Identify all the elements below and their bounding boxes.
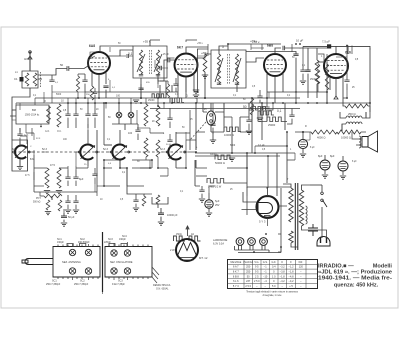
wire top right corner bbox=[303, 46, 370, 54]
wire gang1 terminals bbox=[29, 151, 34, 153]
wire mid h2 bbox=[196, 168, 247, 176]
wire 5Y3 down bbox=[267, 218, 269, 226]
panel mech line bbox=[102, 232, 104, 292]
resistor R20 bbox=[156, 195, 160, 204]
meander under V2 bbox=[152, 94, 166, 98]
wire panel SC4 stem bbox=[73, 242, 128, 247]
extra dots 3 bbox=[119, 159, 121, 161]
volume pot bbox=[44, 194, 62, 200]
wire under V2 links bbox=[160, 81, 168, 84]
wire right of IFT1 bbox=[167, 57, 175, 59]
svg-text:0,4: 0,4 bbox=[272, 266, 276, 269]
wire x197 long v bbox=[197, 49, 199, 92]
filter elco C30 bbox=[298, 139, 307, 148]
V3 plate load wires bbox=[246, 52, 296, 55]
svg-text:190pF: 190pF bbox=[119, 238, 126, 241]
dots pass7 bbox=[267, 155, 269, 157]
ground C31 bbox=[322, 175, 328, 178]
capacitor 7.5pF bbox=[327, 44, 331, 48]
wire y122 h bbox=[258, 121, 267, 123]
wire x158 y84 bbox=[157, 84, 159, 88]
svg-text:PLACCA: PLACCA bbox=[243, 261, 253, 264]
svg-text:8µF: 8µF bbox=[318, 154, 323, 158]
V4 cathode resistor bbox=[345, 104, 368, 108]
svg-text:−3,2: −3,2 bbox=[280, 266, 286, 269]
svg-text:5 Y 3: 5 Y 3 bbox=[259, 220, 266, 224]
wire more mid right bbox=[287, 153, 295, 160]
wire under gang2 bbox=[76, 152, 80, 166]
IF transformer IFT2 box bbox=[211, 50, 246, 88]
svg-text:6 K 7: 6 K 7 bbox=[233, 271, 239, 274]
V4 cathode arrow bbox=[334, 96, 338, 99]
wire V3 under cluster bbox=[257, 90, 262, 103]
wire bottom bus bbox=[195, 160, 197, 168]
cap 100uF bbox=[135, 124, 140, 140]
svg-text:50000 Ω: 50000 Ω bbox=[215, 161, 225, 165]
wire IFT2 to V3 grid bbox=[237, 58, 264, 92]
svg-text:250×7,350pF: 250×7,350pF bbox=[74, 283, 89, 286]
svg-text:−4,2: −4,2 bbox=[289, 280, 295, 283]
svg-text:10000 pF: 10000 pF bbox=[167, 214, 178, 217]
meander resistor 2 bbox=[258, 111, 274, 115]
wire bus stubs bbox=[35, 98, 95, 105]
resistor mid bbox=[57, 104, 61, 127]
shaft flat bbox=[22, 260, 28, 263]
wire v a bbox=[96, 130, 98, 155]
V2 grid cap capacitor bbox=[168, 58, 170, 63]
wire y168 x120 bbox=[119, 160, 121, 168]
wire x110 y50 bbox=[109, 47, 111, 52]
wire det coupling bbox=[120, 160, 152, 186]
wire x262 stub bbox=[261, 44, 263, 50]
filter elco C31 8uF bbox=[320, 160, 330, 170]
wire x240 to oval bbox=[223, 126, 225, 132]
svg-text:«JDL 619 ». —; Produzione: «JDL 619 ». —; Produzione bbox=[318, 270, 392, 276]
wire x186 picks bbox=[185, 132, 187, 140]
wire x44 v bbox=[43, 92, 45, 98]
antenna coil T1 box bbox=[22, 71, 38, 88]
wire left steps bbox=[33, 133, 35, 140]
wire x52 y92 bbox=[51, 85, 53, 98]
wire y140 bbox=[186, 139, 196, 141]
wire x150 v bbox=[149, 128, 151, 168]
wire x120 y56 stub bbox=[120, 55, 126, 57]
meander 10000b bbox=[224, 127, 241, 132]
cap col c bbox=[85, 103, 90, 128]
wire v c bbox=[185, 77, 187, 93]
power transformer core bbox=[295, 183, 298, 250]
cap col d bbox=[92, 103, 97, 128]
trimmer t1 bbox=[116, 112, 122, 118]
grid cap capacitor C2 50pF bbox=[67, 66, 69, 71]
IF transformer IFT1 box bbox=[133, 46, 167, 78]
meander speaker field a bbox=[174, 236, 186, 241]
cap x176 mid bbox=[167, 134, 172, 148]
ground 50uF bbox=[61, 223, 67, 226]
svg-text:52.3: 52.3 bbox=[160, 148, 165, 151]
wire avc left edge bbox=[33, 150, 35, 155]
junction dots 4 bbox=[295, 102, 297, 104]
bus top bbox=[35, 97, 205, 99]
wire left col y120 ties bbox=[12, 110, 16, 120]
wire x292 v bbox=[291, 44, 293, 52]
small cap mid b bbox=[246, 115, 251, 130]
wire mid h3 bbox=[227, 153, 247, 183]
svg-text:8µF: 8µF bbox=[79, 178, 84, 181]
panel trimmer 6 bbox=[85, 268, 91, 274]
wire x164 y103-108 bbox=[164, 98, 172, 109]
junction dots 2 bbox=[227, 43, 229, 45]
svg-text:Ω: Ω bbox=[186, 95, 188, 98]
wire x232 upper bbox=[231, 117, 233, 132]
capacitor C21 bbox=[293, 54, 298, 56]
wire x345 bbox=[343, 54, 347, 98]
resistor R12 bbox=[45, 168, 49, 188]
wire V4 grid res bbox=[316, 64, 319, 84]
wire x106 y103-108 bbox=[105, 103, 107, 109]
band box BM bbox=[16, 105, 49, 124]
extra grounds top bbox=[193, 75, 208, 93]
band switch right section bbox=[105, 247, 152, 278]
wire IFT1 bottom to bus bbox=[141, 78, 158, 98]
wire det2 bbox=[307, 48, 309, 98]
wire det bus bbox=[267, 91, 317, 93]
gnd x205 y78 bbox=[193, 95, 199, 98]
wire gang4 to osc bbox=[188, 151, 196, 153]
power transformer secondary 2 bbox=[289, 231, 293, 243]
wire V1 under cluster bbox=[82, 74, 87, 92]
wire y146 right bbox=[255, 145, 287, 147]
tube V5 5Y3 bbox=[257, 196, 279, 218]
IFT2 core dashes bbox=[228, 54, 230, 84]
dash link osc bbox=[190, 122, 206, 140]
svg-text:5 Y 3: 5 Y 3 bbox=[233, 285, 239, 288]
loudspeaker bbox=[176, 239, 198, 261]
IFT1 core dashes bbox=[150, 50, 152, 74]
wire x95 to box bbox=[94, 184, 96, 192]
V1 cathode resistor bbox=[90, 86, 94, 100]
extra cap top V1 bbox=[93, 88, 97, 98]
wire y57 link bbox=[336, 56, 347, 58]
wire tops y40 bbox=[150, 40, 197, 42]
wire y168 segs bbox=[104, 167, 186, 169]
svg-text:250×7,350pF: 250×7,350pF bbox=[46, 283, 61, 286]
wire osc oval bbox=[210, 103, 212, 132]
wire x90 y60 bbox=[90, 52, 95, 56]
wire 5Y3 plate left bbox=[246, 196, 248, 215]
panel trimmer 5 bbox=[69, 268, 75, 274]
wire antenna top tick bbox=[38, 78, 42, 80]
wire right col y60-90 bbox=[303, 48, 327, 92]
demoltiplica hatch bbox=[152, 267, 159, 283]
svg-text:di segnale, in rete: di segnale, in rete bbox=[263, 294, 283, 297]
ground R14 bbox=[45, 212, 51, 215]
svg-text:8 µF: 8 µF bbox=[352, 161, 357, 163]
wire V2 plate up bbox=[186, 47, 208, 54]
wire right x370 ext bbox=[366, 112, 370, 118]
resistor under V2 c bbox=[166, 84, 169, 98]
wire det3 bbox=[316, 48, 318, 98]
wire IFT1 sec to V2 grid bbox=[158, 60, 175, 81]
svg-text:G.S.: G.S. bbox=[263, 261, 268, 264]
wire x213 upper bbox=[212, 103, 214, 117]
band switch left section bbox=[53, 247, 100, 278]
wire gang3 bbox=[119, 130, 121, 168]
wire V3 cath bus bbox=[267, 90, 283, 103]
wire IFT1 inner trimcaps bbox=[139, 75, 160, 76]
cap x141 y88 bbox=[138, 84, 143, 98]
dot bm bbox=[40, 126, 42, 128]
svg-text:1940-1941. — Media fre-: 1940-1941. — Media fre- bbox=[318, 276, 392, 282]
gnd x141 y100 bbox=[133, 100, 139, 103]
tuning gang section CV4 bbox=[166, 145, 185, 160]
wire V2 plate top y49 bbox=[197, 48, 208, 50]
wire y48 left of V3 bbox=[251, 47, 264, 49]
switch shaft bbox=[25, 259, 53, 265]
wire pot wiper bbox=[40, 192, 52, 200]
svg-text:5000: 5000 bbox=[230, 145, 236, 147]
dots pass6 bbox=[163, 102, 165, 104]
wire PT top bbox=[283, 184, 310, 190]
svg-text:8 µF: 8 µF bbox=[310, 147, 315, 149]
svg-text:50: 50 bbox=[243, 105, 247, 109]
wire V2 under cluster a bbox=[173, 78, 178, 92]
svg-text:POT.: POT. bbox=[36, 198, 41, 200]
wire ant top ticks bbox=[28, 56, 32, 59]
wire y117 h bbox=[224, 116, 249, 118]
power transformer tap loops bbox=[306, 206, 308, 224]
svg-text:6,3V 0,3A: 6,3V 0,3A bbox=[213, 243, 224, 246]
wire OT bbox=[340, 112, 366, 131]
wire tone top bbox=[127, 186, 144, 196]
voltage table text bbox=[230, 261, 303, 288]
svg-text:50 µF: 50 µF bbox=[68, 216, 75, 219]
svg-text:G.O.: G.O. bbox=[45, 131, 50, 133]
wire x348 plate bbox=[302, 46, 304, 48]
gnd extra mid bbox=[210, 140, 235, 161]
svg-text:SEZ. ANTENNA: SEZ. ANTENNA bbox=[62, 260, 81, 264]
svg-text:237: 237 bbox=[246, 280, 251, 283]
wire 64 top bbox=[63, 209, 65, 213]
svg-text:+ 5: + 5 bbox=[289, 285, 293, 288]
coil L6 bbox=[144, 138, 148, 157]
wire x251 v bbox=[250, 44, 252, 50]
svg-text:6A8: 6A8 bbox=[89, 44, 95, 48]
wire x190 col bbox=[189, 110, 191, 150]
coil L7 bbox=[156, 140, 160, 157]
svg-text:10000 Ω: 10000 Ω bbox=[341, 136, 351, 140]
resistor x327 bbox=[325, 64, 328, 90]
wire x260 gnd bbox=[259, 110, 261, 118]
svg-text:52.3: 52.3 bbox=[103, 148, 108, 151]
svg-text:0,1: 0,1 bbox=[277, 109, 282, 113]
svg-text:250 Ω: 250 Ω bbox=[348, 112, 356, 116]
wire IFT2 top bbox=[219, 44, 228, 54]
top wire y44 continuous bbox=[228, 43, 281, 45]
wire 5Y3 right bbox=[242, 192, 288, 210]
svg-text:G.N. 600AL: G.N. 600AL bbox=[156, 288, 169, 291]
wire v long2 bbox=[246, 153, 248, 188]
gnd bm bbox=[17, 167, 23, 170]
wire under V3 links bbox=[252, 115, 267, 122]
filter resistor 10000 bbox=[337, 130, 361, 134]
svg-text:5µF: 5µF bbox=[215, 200, 220, 203]
cap 01b bbox=[73, 195, 78, 209]
ground caps bbox=[65, 210, 79, 213]
mains plug bbox=[317, 237, 330, 246]
wire mains bbox=[310, 184, 322, 186]
wire mid col2 bbox=[285, 103, 303, 132]
wire speaker leads bbox=[356, 139, 362, 145]
wire gang tops bbox=[20, 136, 27, 144]
wire V4 grid res ends bbox=[317, 62, 319, 92]
wire antenna to ground bus bbox=[12, 88, 30, 140]
cap col a bbox=[65, 103, 70, 128]
svg-text:52.3: 52.3 bbox=[12, 149, 17, 151]
gang1 box bbox=[12, 140, 28, 171]
svg-text:−10: −10 bbox=[263, 275, 268, 278]
power transformer secondary winding bbox=[289, 188, 293, 222]
wire mid verticals2 bbox=[249, 103, 287, 122]
wire elco coupling det bbox=[209, 186, 215, 193]
wire V1 envelope to bus bbox=[98, 90, 100, 98]
speaker voice coil bbox=[359, 136, 361, 148]
panel trimmer 3 bbox=[111, 250, 117, 256]
wire x269 stub bbox=[268, 92, 270, 98]
cap x96 mid bbox=[92, 168, 97, 184]
svg-text:1500-1514 kc: 1500-1514 kc bbox=[25, 114, 40, 117]
wire primary to plug bbox=[302, 226, 327, 238]
svg-text:9 5: 9 5 bbox=[255, 271, 259, 274]
wire x268 v bbox=[267, 156, 269, 188]
dots pass4 bbox=[346, 97, 348, 99]
vertical pair x205-210 top bbox=[207, 44, 209, 50]
IFT2 primary coil bbox=[217, 54, 220, 84]
svg-text:1Ω: 1Ω bbox=[191, 234, 194, 236]
svg-text:+250 v.: +250 v. bbox=[201, 53, 209, 55]
svg-text:30000: 30000 bbox=[210, 154, 217, 156]
svg-text:Modelli: Modelli bbox=[373, 263, 393, 269]
wire top bus drops bbox=[119, 98, 158, 106]
tuning gang section CV2 bbox=[78, 145, 97, 160]
wire gang2 terminals bbox=[76, 151, 100, 153]
meander 1M bbox=[207, 179, 227, 184]
capacitor C1 bbox=[20, 77, 24, 82]
svg-text:−4,2: −4,2 bbox=[280, 280, 286, 283]
svg-text:+250 v.: +250 v. bbox=[250, 41, 258, 43]
svg-text:120: 120 bbox=[299, 266, 304, 269]
wire right bus down bbox=[369, 48, 371, 112]
elco 5uF bbox=[205, 200, 213, 208]
gang dashed line bbox=[14, 151, 188, 153]
ground elco5 bbox=[206, 213, 212, 216]
wire lamps right up bbox=[269, 247, 281, 253]
wire tone h bbox=[144, 193, 152, 195]
wire x327 ends bbox=[326, 54, 328, 103]
speaker cone bbox=[368, 131, 378, 152]
svg-text:9 5: 9 5 bbox=[255, 266, 259, 269]
cap 01a bbox=[65, 195, 70, 209]
wire x104 lower bbox=[104, 160, 120, 186]
svg-text:C1: C1 bbox=[14, 77, 18, 81]
wire switch bbox=[321, 185, 323, 238]
cap right col bbox=[300, 66, 305, 80]
wire y160 left bbox=[104, 159, 152, 161]
svg-text:VALVOLE: VALVOLE bbox=[230, 261, 241, 264]
wire y133 steps bbox=[150, 132, 190, 134]
avc box bbox=[34, 155, 97, 192]
wire y145 left bbox=[104, 144, 112, 146]
resistor R14 bbox=[46, 200, 50, 210]
resistor tone bbox=[142, 196, 146, 206]
antenna coil secondary bbox=[33, 73, 37, 86]
cap col e bbox=[167, 108, 172, 128]
osc coil L4 bbox=[144, 104, 148, 126]
V4 cathode wires bbox=[330, 75, 343, 96]
wire V1 plate to IFT1 bbox=[108, 50, 133, 56]
svg-text:+55 v.: +55 v. bbox=[197, 43, 204, 45]
cap x52 bbox=[49, 75, 54, 82]
svg-text:5000: 5000 bbox=[56, 94, 62, 96]
wire V1 screen down bbox=[105, 90, 107, 98]
panel trimmer 4 bbox=[124, 250, 130, 256]
ground det bbox=[199, 199, 205, 202]
wire V2 to IFT2 bbox=[195, 54, 211, 58]
wire 52 label leads bbox=[34, 152, 47, 180]
ground tone bbox=[133, 208, 139, 211]
output transformer primary bbox=[346, 116, 362, 118]
svg-text:BM: BM bbox=[32, 108, 36, 112]
cap col b bbox=[73, 103, 78, 128]
svg-text:V.G.: V.G. bbox=[254, 261, 259, 264]
antenna coil primary bbox=[25, 73, 29, 86]
wire v b bbox=[126, 168, 128, 186]
pilot lamp 1 bbox=[236, 238, 244, 246]
resistor under V3 bbox=[250, 98, 253, 115]
wire v long3 bbox=[276, 153, 278, 196]
wire mid h1 bbox=[203, 111, 224, 113]
left caps y130-140 bbox=[17, 128, 22, 142]
panel trimmer 1 bbox=[69, 249, 75, 255]
panel trimmer 2 bbox=[85, 249, 91, 255]
svg-text:G.F.: G.F. bbox=[272, 261, 277, 264]
wire x137 top bbox=[136, 110, 138, 124]
bus top b bbox=[205, 97, 300, 99]
wire PT bottom bbox=[291, 243, 298, 247]
pilot lamp 2 bbox=[248, 238, 256, 246]
svg-text:6 B 8: 6 B 8 bbox=[233, 275, 239, 278]
wire trimmers bbox=[112, 103, 138, 130]
V1 cathode wires bbox=[92, 72, 106, 90]
svg-text:6K7: 6K7 bbox=[177, 46, 183, 50]
svg-text:4000 Ω: 4000 Ω bbox=[317, 136, 325, 140]
output transformer secondary bbox=[346, 122, 362, 124]
cap 8uF b bbox=[73, 170, 78, 186]
capacitor mains block bbox=[308, 224, 318, 236]
wire gang1 bottom bbox=[19, 159, 21, 166]
svg-text:−1,8: −1,8 bbox=[289, 271, 295, 274]
junction dots top bbox=[98, 97, 100, 99]
wire V3 top cap bbox=[275, 48, 281, 54]
wire under V1 links bbox=[78, 74, 85, 98]
svg-text:100: 100 bbox=[128, 132, 133, 135]
meander 50000 bbox=[215, 155, 233, 160]
svg-text:47.5: 47.5 bbox=[25, 175, 30, 177]
wire left col x104 bbox=[104, 103, 112, 145]
left col grounds bbox=[44, 191, 62, 194]
wire V1 to left caps bbox=[88, 56, 95, 66]
tube V1 6A8 bbox=[88, 44, 110, 74]
